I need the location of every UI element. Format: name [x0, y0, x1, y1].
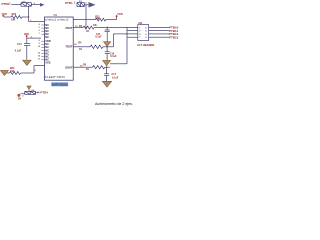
svg-text:0.1uF: 0.1uF [112, 76, 119, 79]
svg-text:1K: 1K [79, 48, 82, 51]
svg-text:10k: 10k [93, 24, 98, 27]
svg-text:VDD: VDD [2, 12, 8, 16]
svg-text:9: 9 [39, 43, 40, 45]
svg-text:10K: 10K [95, 18, 100, 21]
svg-text:0.1uF: 0.1uF [15, 50, 22, 53]
svg-text:7: 7 [39, 33, 40, 35]
svg-text:p/dwct1 p/dwct2: p/dwct1 p/dwct2 [45, 18, 69, 22]
svg-text:1K: 1K [86, 68, 89, 71]
svg-text:R22: R22 [12, 13, 17, 16]
svg-text:10K: 10K [11, 19, 16, 22]
svg-text:VDD: VDD [117, 12, 123, 16]
svg-text:8: 8 [39, 40, 40, 42]
svg-text:VDD: VDD [24, 32, 30, 36]
svg-text:ZOUT: ZOUT [65, 26, 73, 30]
svg-text:5: 5 [39, 27, 40, 29]
svg-text:MXR7202GL: MXR7202GL [52, 83, 69, 87]
svg-text:0.1uF: 0.1uF [110, 55, 117, 58]
svg-text:17: 17 [38, 59, 40, 61]
svg-text:TOUT: TOUT [65, 45, 73, 49]
svg-text:PTD0: PTD0 [2, 2, 10, 6]
svg-text:NC: NC [45, 35, 49, 39]
svg-text:SOUT: SOUT [65, 66, 73, 70]
svg-text:C14: C14 [17, 43, 22, 46]
svg-text:1K: 1K [86, 30, 89, 33]
svg-text:ALT HEADER: ALT HEADER [137, 43, 154, 47]
svg-text:PTB13: PTB13 [169, 36, 179, 40]
svg-text:J34: J34 [138, 21, 143, 25]
svg-text:6: 6 [39, 30, 40, 32]
svg-text:12: 12 [38, 52, 40, 54]
svg-text:PTD1: PTD1 [65, 1, 73, 5]
svg-text:VSS: VSS [45, 61, 50, 65]
svg-text:10K: 10K [10, 70, 15, 73]
svg-text:16: 16 [38, 56, 40, 58]
svg-text:10: 10 [38, 46, 40, 48]
svg-text:SLEEP*XR06: SLEEP*XR06 [45, 75, 65, 79]
svg-text:0.1uF: 0.1uF [95, 36, 102, 39]
svg-text:PTD4: PTD4 [40, 90, 48, 94]
svg-text:Acelerómetro de 2 ejes.: Acelerómetro de 2 ejes. [95, 102, 133, 106]
